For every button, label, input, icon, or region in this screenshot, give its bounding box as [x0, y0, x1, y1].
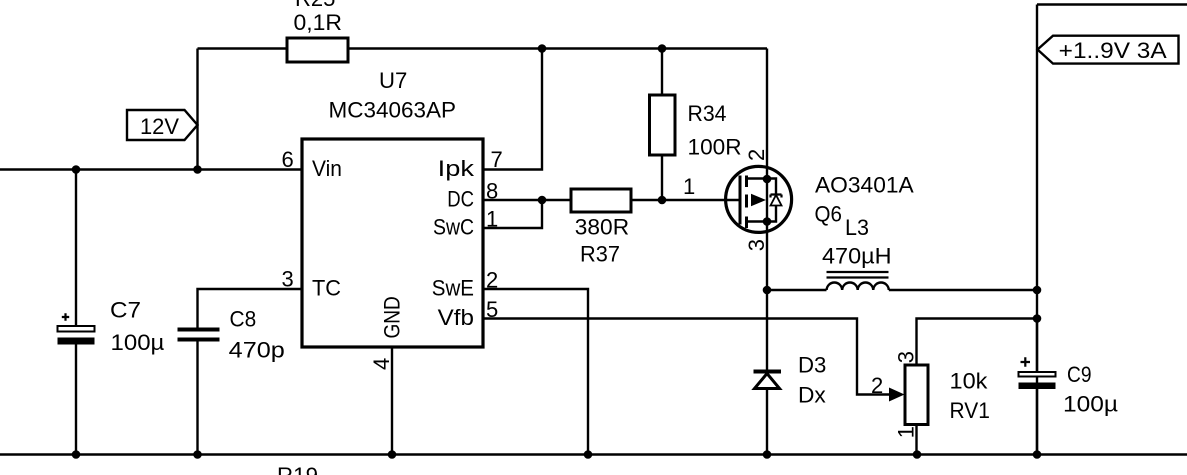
wire top rail left segment to R25: [198, 47, 288, 49]
svg-text:U7: U7: [379, 68, 407, 93]
wire R34 bottom lead: [661, 155, 663, 200]
svg-text:1: 1: [683, 174, 695, 199]
svg-text:C7: C7: [110, 298, 141, 323]
wire GND pin4: [391, 347, 393, 455]
junction node output feedback: [1033, 314, 1042, 323]
svg-text:2: 2: [871, 373, 883, 398]
wire C7 top lead: [75, 170, 77, 327]
svg-text:100R: 100R: [688, 135, 742, 160]
diode D3 triangle: [755, 374, 780, 389]
transistor Q6 circle body: [726, 166, 792, 232]
junction node DC SwC: [538, 196, 547, 205]
svg-text:6: 6: [282, 147, 294, 172]
svg-text:8: 8: [486, 179, 498, 204]
svg-text:SwC: SwC: [433, 215, 474, 240]
svg-text:10k: 10k: [950, 368, 989, 393]
capacitor C9 plus sign: [1021, 357, 1031, 366]
svg-text:R34: R34: [688, 101, 727, 126]
svg-text:380R: 380R: [575, 215, 629, 240]
wire L3 left lead: [767, 289, 827, 291]
junction node C7 top: [72, 165, 81, 174]
wire C9 top lead: [1036, 319, 1038, 373]
wire C7 bottom lead: [75, 345, 77, 455]
svg-text:Q6: Q6: [815, 202, 842, 227]
transistor Q6 body diode triangle: [771, 195, 782, 206]
svg-text:MC34063AP: MC34063AP: [329, 98, 457, 123]
svg-text:Vfb: Vfb: [438, 305, 474, 330]
resistor R34 body: [650, 95, 676, 155]
wire C8 bottom lead: [196, 342, 198, 455]
diode D3 cathode bar: [754, 370, 782, 374]
wire R34 top lead: [661, 49, 663, 96]
svg-text:470µH: 470µH: [822, 244, 892, 269]
svg-text:R19: R19: [277, 463, 318, 475]
transistor Q6 gate bar: [739, 176, 742, 225]
wire top rail right segment from R25 to Q6 drain: [348, 47, 767, 49]
wire L3 right lead: [889, 289, 1037, 291]
potentiometer RV1 wiper arrow: [889, 388, 905, 402]
junction node Q6 drain: [763, 217, 772, 226]
transistor Q6 body diode cathode bar: [771, 195, 782, 198]
svg-text:100µ: 100µ: [111, 330, 165, 355]
junction node output L3: [1033, 286, 1042, 295]
svg-text:+1..9V 3A: +1..9V 3A: [1059, 38, 1167, 63]
capacitor C7 bottom plate: [58, 338, 95, 345]
svg-text:1: 1: [894, 426, 919, 438]
capacitor C8 bottom plate: [178, 338, 220, 342]
svg-text:100µ: 100µ: [1063, 392, 1118, 417]
transistor Q6 top connector: [747, 177, 768, 179]
wire pin8 DC stub to R37: [483, 199, 571, 201]
junction node ground RV1: [913, 450, 922, 459]
wire pin1 SwC stub: [483, 200, 542, 228]
svg-text:GND: GND: [380, 296, 405, 338]
svg-text:C9: C9: [1067, 362, 1092, 387]
wire Q6 vertical drain/source line: [766, 49, 768, 291]
capacitor C7 top plate: [58, 326, 95, 332]
power flag 12V: [127, 110, 198, 140]
svg-text:3: 3: [282, 267, 294, 292]
IC U7 box: [302, 139, 483, 347]
resistor R25 body: [287, 38, 348, 62]
inductor L3 core lines: [827, 272, 889, 278]
svg-text:AO3401A: AO3401A: [815, 172, 914, 197]
junction node top rail Ipk: [538, 44, 547, 53]
wire pin3 TC to C8: [198, 289, 303, 328]
svg-text:L3: L3: [845, 215, 869, 240]
junction node ground C8: [193, 450, 202, 459]
wire RV1 bottom lead: [915, 425, 917, 455]
svg-text:Ipk: Ipk: [438, 156, 476, 181]
svg-text:0,1R: 0,1R: [294, 10, 343, 35]
svg-text:R37: R37: [580, 241, 620, 266]
svg-text:7: 7: [491, 147, 503, 172]
capacitor C9 top plate: [1019, 372, 1056, 377]
junction node ground SwE: [584, 450, 593, 459]
svg-text:470p: 470p: [229, 337, 285, 362]
junction node ground C9: [1033, 450, 1042, 459]
wire D3 top lead: [766, 290, 768, 370]
potentiometer RV1 body: [905, 365, 928, 425]
resistor R37 body: [571, 189, 631, 212]
junction node 12V branch: [193, 165, 202, 174]
svg-text:12V: 12V: [140, 114, 179, 139]
svg-text:DC: DC: [447, 187, 474, 212]
transistor Q6 bottom connector: [747, 220, 768, 222]
svg-text:SwE: SwE: [432, 276, 474, 301]
power flag +1..9V 3A: [1038, 36, 1179, 64]
junction node ground C7: [72, 450, 81, 459]
capacitor C8 top plate: [178, 328, 220, 332]
junction node ground U7: [388, 450, 397, 459]
capacitor C7 plus sign: [62, 313, 69, 320]
wire C9 bottom lead: [1036, 389, 1038, 455]
wire R37 to gate: [631, 199, 739, 201]
svg-text:3: 3: [744, 239, 769, 251]
transistor Q6 arrow: [751, 194, 766, 206]
svg-text:1: 1: [486, 207, 498, 232]
svg-text:3: 3: [894, 351, 919, 363]
svg-text:D3: D3: [798, 353, 826, 378]
svg-text:TC: TC: [312, 276, 341, 301]
junction node gate R34: [658, 196, 667, 205]
inductor L3 humps: [827, 282, 889, 290]
transistor Q6 body diode path: [767, 179, 776, 222]
wire top right rail: [1037, 3, 1187, 5]
wire 12V branch vertical x=197.5: [196, 49, 198, 170]
svg-text:Vin: Vin: [312, 156, 342, 181]
wire D3 bottom lead: [766, 389, 768, 455]
svg-text:2: 2: [744, 149, 769, 161]
svg-text:C8: C8: [230, 307, 257, 332]
wire pin2 SwE to ground: [483, 289, 588, 455]
svg-text:4: 4: [369, 358, 394, 370]
svg-text:2: 2: [486, 268, 498, 293]
junction node ground D3: [763, 450, 772, 459]
wire main input rail y=169.5: [0, 168, 302, 170]
wire pin7 Ipk stub: [483, 49, 542, 170]
junction node switch node: [763, 286, 772, 295]
svg-text:5: 5: [486, 297, 498, 322]
wire pin5 Vfb to RV1 wiper: [483, 319, 889, 395]
wire output rail vertical x=1037: [1036, 5, 1038, 455]
wire RV1 pin3 to output rail: [917, 319, 1038, 366]
wire bottom ground rail: [0, 453, 1187, 455]
junction node top rail R34: [658, 44, 667, 53]
svg-text:Dx: Dx: [798, 382, 826, 407]
svg-text:RV1: RV1: [950, 398, 990, 423]
transistor Q6 channel segments: [745, 176, 748, 229]
capacitor C9 bottom plate: [1019, 383, 1056, 390]
junction node Q6 source: [763, 175, 772, 184]
